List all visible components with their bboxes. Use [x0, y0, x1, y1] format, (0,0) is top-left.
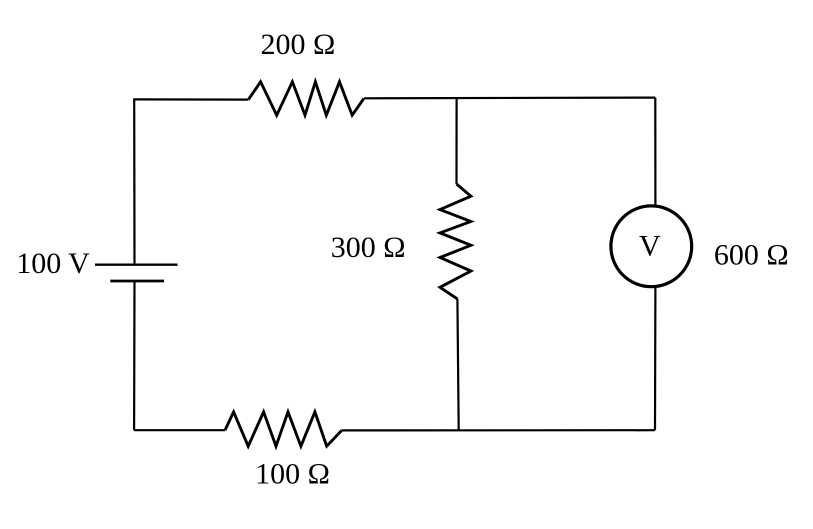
wire: bottom rail left segment (bottom-left corner to 100 ohm) [134, 429, 225, 431]
wire: bottom rail right segment (100 ohm to bottom-right corner) [342, 429, 655, 431]
svg-text:V: V [639, 230, 661, 263]
wire: right vertical lower segment (voltmeter to bottom-right corner) [654, 287, 657, 431]
battery V1 short plate (-) [110, 280, 164, 283]
wire: top rail left segment (top-left corner to 200 ohm resistor) [134, 98, 248, 100]
svg-text:200 Ω: 200 Ω [261, 28, 336, 61]
wire: right vertical upper segment (top-right corner down to voltmeter) [654, 98, 656, 206]
wire: left vertical upper segment (top-left corner down to battery + plate) [133, 98, 136, 264]
wire: top rail right segment (200 ohm to top-right corner) [364, 96, 655, 99]
wire: middle vertical lower segment (300 ohm down to bottom rail) [457, 299, 458, 430]
resistor R1 200 ohm (top, horizontal zigzag) [248, 82, 364, 115]
wire: middle vertical upper segment (top rail down to 300 ohm) [455, 98, 457, 184]
resistor R2 300 ohm (middle, vertical zigzag) [440, 184, 471, 299]
svg-text:100 V: 100 V [16, 247, 90, 280]
battery V1 long plate (+) [95, 264, 178, 266]
resistor R3 100 ohm (bottom, horizontal zigzag) [225, 412, 342, 446]
wire: left vertical lower segment (battery - plate to bottom rail) [133, 281, 136, 430]
svg-text:100 Ω: 100 Ω [255, 457, 330, 490]
svg-text:300 Ω: 300 Ω [331, 231, 406, 264]
voltmeter M1 circle [611, 206, 692, 287]
svg-text:600 Ω: 600 Ω [714, 239, 789, 272]
